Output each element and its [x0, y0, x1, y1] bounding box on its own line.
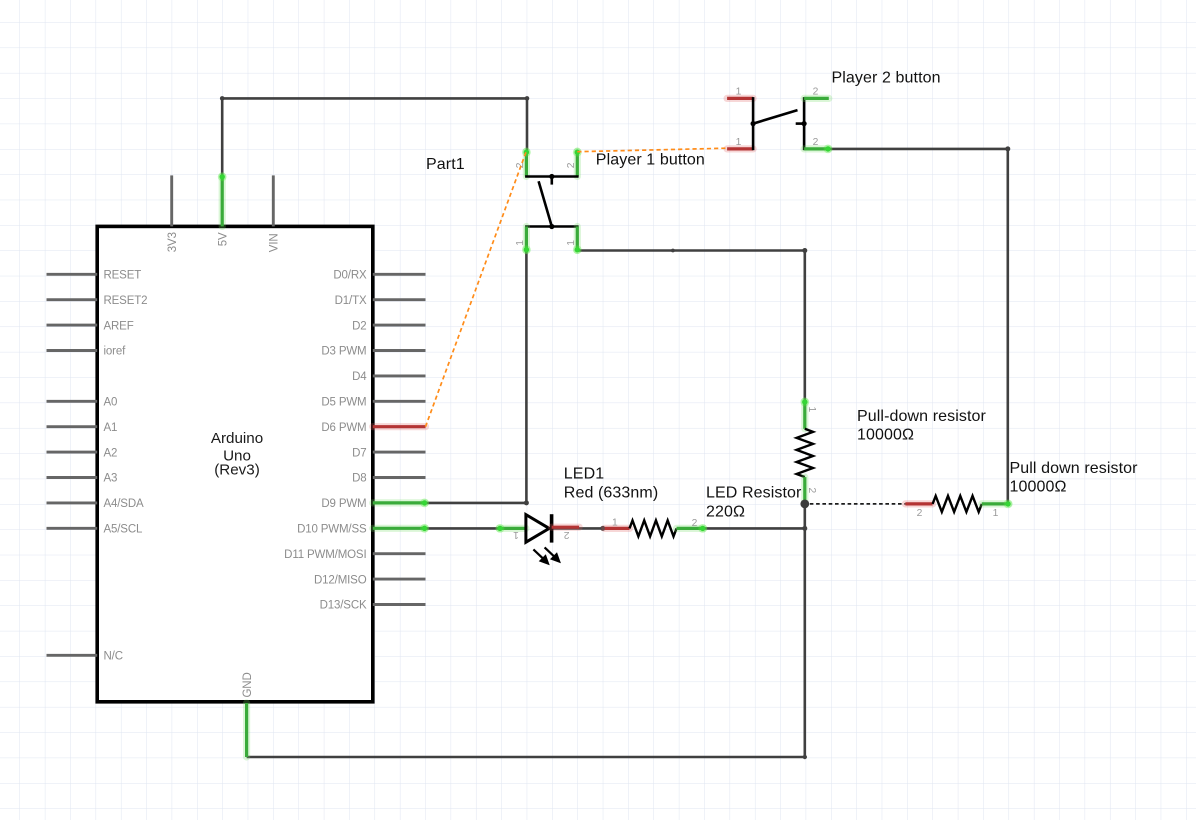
pin GND stub (connected green) — [243, 703, 250, 757]
pin D5 PWM stub — [373, 400, 426, 403]
pull down resistor zigzag — [933, 496, 982, 512]
pushbutton Part1 (Player 1) — [515, 148, 581, 254]
svg-text:A2: A2 — [104, 447, 118, 459]
pin D7 stub — [373, 451, 426, 454]
junction bottom-right corner — [803, 755, 807, 759]
Player2 pin 1 bottom-left (red) — [727, 145, 753, 152]
pin A4/SDA stub — [47, 501, 98, 504]
svg-text:10000Ω: 10000Ω — [1010, 479, 1067, 496]
Part1 top bar — [525, 175, 579, 178]
Player2 contact diagonal — [753, 110, 797, 124]
pushbutton Player 2 — [727, 87, 832, 154]
resistor Pull-down resistor 10000 ohm (vertical) — [797, 398, 817, 502]
svg-text:1: 1 — [736, 137, 742, 148]
pin D2 stub — [373, 324, 426, 327]
svg-text:1: 1 — [513, 529, 519, 540]
junction top-right corner — [525, 96, 530, 101]
ratsnest wire D6 PWM to Part1 pin2 (orange dashed) — [426, 151, 527, 427]
pin A2 stub — [47, 451, 98, 454]
svg-text:Player 1 button: Player 1 button — [596, 152, 705, 169]
Part1 actuator tick — [550, 177, 553, 185]
pin D10 PWM/SS stub (connected green) — [373, 525, 426, 532]
svg-text:Pull-down resistor: Pull-down resistor — [857, 408, 987, 425]
pin D0/RX stub — [373, 273, 426, 276]
pin N/C stub — [47, 654, 98, 657]
pin AREF stub — [47, 324, 98, 327]
svg-text:D8: D8 — [352, 473, 366, 485]
svg-text:A1: A1 — [104, 422, 118, 434]
pin RESET2 stub — [47, 298, 98, 301]
pull-down resistor zigzag — [797, 429, 813, 477]
pin D11 PWM/MOSI stub — [373, 552, 426, 555]
junction bendpoint on Part1-resistor wire — [671, 249, 675, 253]
resistor LED Resistor 220 ohm — [605, 518, 707, 537]
svg-text:A5/SCL: A5/SCL — [104, 524, 143, 536]
svg-text:5V: 5V — [218, 232, 230, 246]
LED1 pin 1 anode (green) — [499, 525, 526, 532]
pull-down resistor pin 1 (green) — [801, 401, 808, 429]
svg-text:2: 2 — [813, 87, 819, 98]
svg-text:D13/SCK: D13/SCK — [320, 600, 367, 612]
svg-text:1: 1 — [993, 508, 999, 519]
pin 5V stub (connected green) — [219, 176, 226, 226]
pin A1 stub — [47, 425, 98, 428]
svg-text:D10 PWM/SS: D10 PWM/SS — [297, 524, 367, 536]
Part1 bottom bar — [525, 225, 579, 228]
svg-text:D4: D4 — [352, 371, 367, 383]
pin D3 PWM stub — [373, 349, 426, 352]
Player2 right bar — [803, 97, 806, 150]
svg-text:Arduino: Arduino — [211, 430, 263, 447]
LED1 pin 2 (red) — [552, 524, 580, 531]
junction top-left corner — [220, 96, 225, 101]
pin A0 stub — [47, 400, 98, 403]
arduino U1 body Arduino Uno (Rev3) — [97, 226, 373, 701]
pull down resistor pin 1 (green) — [982, 500, 1009, 507]
wire LED resistor pin2 to GND rail — [704, 527, 805, 530]
svg-text:AREF: AREF — [104, 320, 134, 332]
svg-text:Red (633nm): Red (633nm) — [564, 484, 658, 501]
LED1 emission arrow 2 — [545, 547, 560, 562]
wire D10 to LED anode — [426, 527, 500, 530]
Part1 pin 1 right leg — [574, 227, 581, 251]
svg-text:3V3: 3V3 — [167, 232, 179, 252]
svg-text:VIN: VIN — [269, 233, 281, 252]
Part1 pin 2 right leg — [574, 151, 581, 177]
wire Part1 pin1 vertical — [525, 250, 528, 503]
svg-text:LED Resistor: LED Resistor — [706, 485, 802, 502]
node A big junction dot — [800, 500, 809, 509]
svg-text:D5 PWM: D5 PWM — [321, 397, 366, 409]
LED1 cathode bar — [550, 514, 554, 542]
wire Part1 pin1 right to pull-down resistor — [577, 249, 805, 252]
svg-text:220Ω: 220Ω — [706, 503, 745, 520]
LED1 emission arrow 1 — [533, 549, 548, 564]
svg-text:D9 PWM: D9 PWM — [321, 498, 366, 510]
wire down to pull-down resistor pin1 — [803, 251, 806, 402]
svg-text:1: 1 — [736, 87, 742, 98]
pull down resistor pin 2 (red) — [905, 500, 932, 507]
pin D8 stub — [373, 476, 426, 479]
svg-text:ioref: ioref — [104, 346, 127, 358]
wire top rail down to Part1 pin2 — [526, 98, 529, 151]
svg-text:2: 2 — [566, 162, 577, 168]
pin A5/SCL stub — [47, 527, 98, 530]
svg-text:RESET2: RESET2 — [104, 295, 148, 307]
wire Player2 pin2 to right rail — [829, 148, 1008, 151]
ratsnest wire Part1 pin2 to Player2 pin1 (orange dashed) — [577, 148, 727, 152]
svg-text:A3: A3 — [104, 473, 118, 485]
LED1 Red (633nm) — [496, 514, 579, 564]
svg-text:RESET: RESET — [104, 270, 142, 282]
svg-text:2: 2 — [806, 488, 817, 494]
pin D4 stub — [373, 374, 426, 377]
svg-text:Pull down resistor: Pull down resistor — [1010, 460, 1139, 477]
Part1 contact diagonal — [539, 181, 552, 226]
svg-text:D2: D2 — [352, 320, 366, 332]
svg-text:(Rev3): (Rev3) — [214, 462, 260, 479]
svg-text:GND: GND — [242, 672, 254, 697]
wire D9 PWM to Part1 pin1 horizontal — [426, 502, 527, 505]
LED1 triangle — [526, 515, 549, 543]
svg-text:10000Ω: 10000Ω — [857, 427, 914, 444]
LED resistor pin 1 (red) — [605, 525, 630, 532]
pin VIN stub — [272, 175, 275, 226]
pull-down resistor pin 2 (green) — [801, 477, 808, 502]
svg-text:N/C: N/C — [104, 651, 123, 663]
svg-text:1: 1 — [612, 518, 618, 529]
wire node A to pull-down resistor 2 (black dashed) — [810, 503, 906, 505]
svg-text:1: 1 — [515, 240, 526, 246]
svg-text:D1/TX: D1/TX — [335, 295, 367, 307]
svg-text:Player 2 button: Player 2 button — [832, 69, 941, 86]
wire LED cathode to LED resistor — [549, 527, 604, 530]
Player2 actuator tick — [796, 122, 804, 125]
junction bendpoint LED wire — [600, 526, 605, 531]
svg-text:LED1: LED1 — [564, 465, 604, 482]
junction corner above pull-down resistor — [802, 248, 807, 253]
svg-text:1: 1 — [806, 407, 817, 413]
pin 3V3 stub — [170, 175, 173, 226]
Player2 pin 1 top-left (red) — [727, 95, 753, 102]
svg-text:A4/SDA: A4/SDA — [104, 498, 144, 510]
LED resistor pin 2 (green) — [677, 525, 704, 532]
pin RESET stub — [47, 273, 98, 276]
pin D1/TX stub — [373, 298, 426, 301]
svg-text:D0/RX: D0/RX — [333, 270, 367, 282]
Part1 pin 2 left leg — [523, 151, 530, 177]
svg-text:2: 2 — [692, 518, 698, 529]
Player2 pin 2 top-right (green) — [804, 95, 829, 102]
pin ioref stub — [47, 349, 98, 352]
svg-text:D3 PWM: D3 PWM — [321, 346, 366, 358]
svg-text:2: 2 — [564, 529, 570, 540]
Player2 left bar — [752, 97, 755, 150]
pin D12/MISO stub — [373, 578, 426, 581]
wire 5V rail vertical from Arduino 5V pin — [221, 98, 224, 176]
svg-text:2: 2 — [917, 508, 923, 519]
Part1 pin 1 left leg — [523, 227, 530, 251]
wire GND vertical from node A down — [803, 504, 806, 757]
wire GND bottom horizontal — [247, 756, 805, 759]
svg-text:A0: A0 — [104, 397, 118, 409]
svg-text:D7: D7 — [352, 447, 366, 459]
pin A3 stub — [47, 476, 98, 479]
junction LED row meets GND rail — [802, 526, 807, 531]
svg-text:D11 PWM/MOSI: D11 PWM/MOSI — [284, 549, 366, 561]
pin D6 PWM stub (highlighted red) — [373, 423, 426, 430]
pin D13/SCK stub — [373, 603, 426, 606]
LED resistor zigzag — [630, 520, 677, 536]
pin D9 PWM stub (connected green) — [373, 499, 426, 506]
svg-text:2: 2 — [813, 137, 819, 148]
Player2 pin 2 bottom-right (green) — [804, 145, 829, 152]
wire right rail vertical down — [1006, 149, 1009, 504]
junction D9 wire corner — [524, 500, 529, 505]
wire 5V rail top horizontal — [222, 97, 527, 100]
svg-text:Part1: Part1 — [426, 156, 465, 173]
resistor Pull down resistor 10000 ohm (horizontal) — [905, 496, 1012, 519]
svg-text:1: 1 — [566, 240, 577, 246]
svg-text:D12/MISO: D12/MISO — [314, 574, 367, 586]
junction right rail corner — [1005, 146, 1010, 151]
svg-text:D6 PWM: D6 PWM — [321, 422, 366, 434]
